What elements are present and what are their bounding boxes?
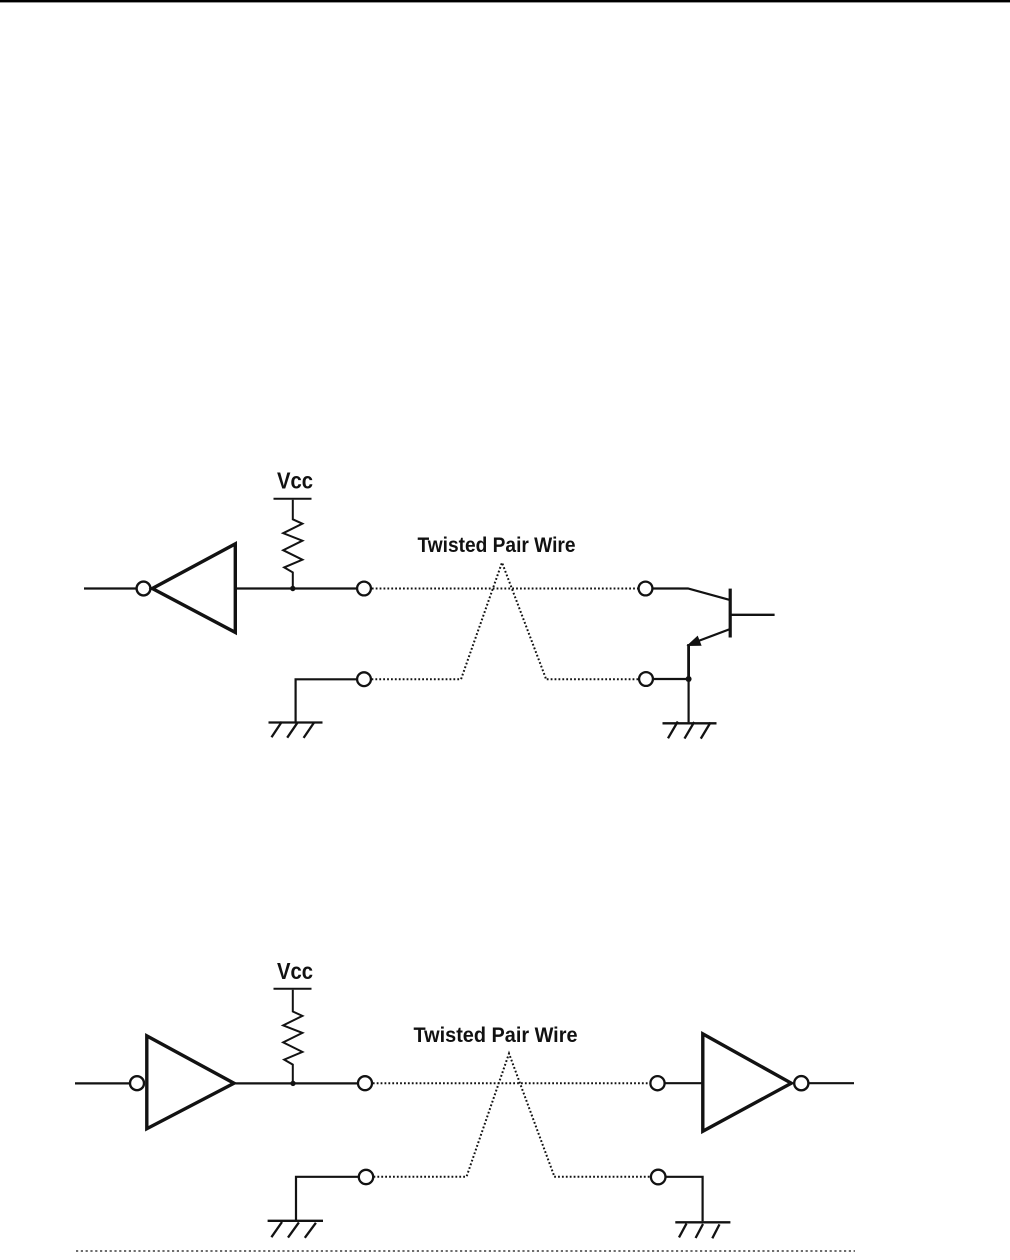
wire: terminal B to Q1 base [653, 589, 730, 600]
terminal F2 (bottom circuit top-right connector) [650, 1076, 664, 1090]
ground (top circuit, left) [269, 722, 323, 738]
terminal H2 (bottom circuit bottom-right connector) [651, 1170, 666, 1185]
node: junction of R1 and wire [290, 586, 295, 591]
transistor Q1 base bar [729, 589, 732, 638]
terminal C (bottom-left connector circle) [357, 672, 371, 686]
svg-text:Vcc: Vcc [277, 468, 313, 494]
inverter U1 (left-pointing triangle) [152, 544, 235, 633]
Vcc power bar (bottom) [274, 988, 312, 990]
wire: input to inverter U2 [75, 1082, 130, 1084]
svg-text:Vcc: Vcc [277, 958, 313, 984]
svg-text:Twisted Pair Wire: Twisted Pair Wire [414, 1024, 578, 1047]
wire: terminal F2 to buffer U3 [665, 1082, 704, 1084]
Vcc power bar [274, 498, 312, 500]
terminal D (bottom-right connector circle) [639, 672, 653, 686]
wire: emitter down to node E [687, 644, 690, 679]
wire: terminal H2 to ground [666, 1177, 703, 1221]
buffer U3 output bubble [794, 1076, 808, 1090]
terminal B (top-right connector circle) [639, 582, 653, 596]
transistor Q1 emitter [694, 629, 729, 642]
inverter U1 bubble [137, 582, 151, 596]
twisted pair: top wire (dotted) [372, 588, 639, 590]
wire: U2 to terminal E2 [234, 1082, 358, 1084]
ground (bottom circuit, right) [675, 1222, 730, 1238]
inverter U2 (right-pointing triangle) [147, 1036, 234, 1129]
terminal A (top-left connector circle) [357, 582, 371, 596]
wire: U3 output [809, 1082, 854, 1084]
ground (bottom circuit, left) [268, 1221, 323, 1238]
inverter U2 bubble [130, 1076, 144, 1090]
wire: ground stub to terminal C [296, 679, 357, 721]
twisted pair: bottom wire with crossover (dotted) [372, 563, 639, 680]
transistor Q1 emitter arrow [688, 637, 701, 646]
wire: terminal D to node E [653, 678, 686, 680]
terminal G2 (bottom circuit bottom-left connector) [359, 1170, 373, 1184]
resistor R1 [283, 500, 302, 587]
ground (top circuit, right) [663, 722, 717, 739]
twisted pair 2: bottom wire with crossover (dotted) [374, 1054, 651, 1177]
svg-text:Twisted Pair Wire: Twisted Pair Wire [418, 534, 576, 557]
wire: ground stub to terminal G2 [296, 1177, 358, 1220]
node E junction dot [686, 676, 692, 682]
node: junction of R2 and wire [290, 1081, 295, 1086]
buffer U3 (right-pointing triangle) [703, 1034, 792, 1131]
twisted pair 2: top wire (dotted) [373, 1082, 650, 1084]
wire: input to inverter U1 [84, 587, 136, 589]
wire: U1 to terminal A [235, 587, 357, 589]
transistor Q1 collector [730, 614, 774, 616]
wire: node E to ground [687, 679, 689, 722]
resistor R2 [283, 990, 302, 1081]
terminal E2 (bottom circuit top-left connector) [358, 1076, 372, 1090]
